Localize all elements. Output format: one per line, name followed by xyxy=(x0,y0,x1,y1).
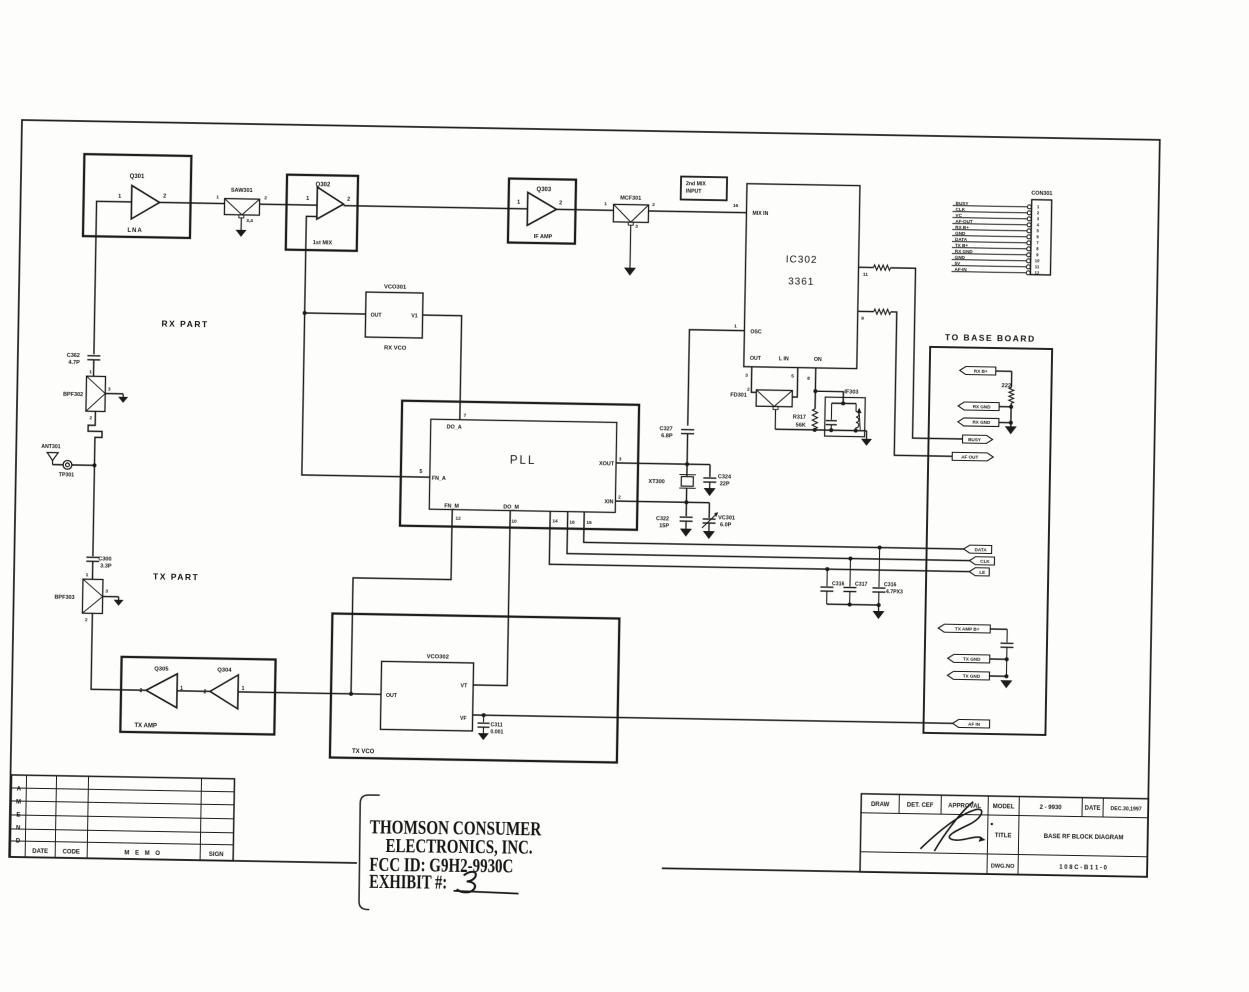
svg-text:DATA: DATA xyxy=(975,547,988,552)
signal tag BUSY xyxy=(962,435,992,444)
svg-text:OUT: OUT xyxy=(371,313,383,319)
wire resistor to ground xyxy=(1010,403,1012,426)
amplifier Q303 (IF amp) box xyxy=(508,179,576,244)
title block grid xyxy=(860,794,1149,878)
schematic sheet (rotated scan) xyxy=(8,119,1161,878)
junction node IF303 top xyxy=(841,401,845,405)
junction node L bottom xyxy=(854,429,858,433)
ground at C322 xyxy=(685,521,687,528)
svg-text:C300: C300 xyxy=(98,556,111,562)
svg-text:IF AMP: IF AMP xyxy=(534,234,553,240)
ground at SAW301 xyxy=(235,230,246,237)
signal tag TX AMP B+ xyxy=(938,624,990,633)
wire IC302 pin3 to FD301 xyxy=(751,367,756,393)
svg-text:6.8P: 6.8P xyxy=(661,433,673,439)
svg-text:1: 1 xyxy=(86,572,89,578)
svg-text:2: 2 xyxy=(163,193,166,199)
oscillator VCO301 box xyxy=(365,292,423,338)
wire CON301 pin 4 xyxy=(952,224,1027,225)
svg-text:MCF301: MCF301 xyxy=(620,195,641,201)
svg-text:3: 3 xyxy=(745,373,748,379)
resistor R317 xyxy=(812,409,818,429)
svg-text:VC: VC xyxy=(955,213,962,218)
amplifier Q301 (LNA) block box xyxy=(83,154,191,238)
wire LNA out to SAW301 xyxy=(160,202,225,203)
svg-text:C322: C322 xyxy=(656,516,669,522)
wire XIN to VC301 xyxy=(708,503,710,518)
svg-text:RX GND: RX GND xyxy=(955,249,974,254)
wire PLL FN_M to TX VCO node xyxy=(351,508,452,696)
pin circle CON301 pin 9 xyxy=(1027,253,1031,257)
svg-text:PLL: PLL xyxy=(510,455,537,467)
svg-text:2: 2 xyxy=(559,200,562,206)
svg-text:1: 1 xyxy=(517,200,520,206)
svg-text:VCO302: VCO302 xyxy=(427,654,449,660)
wire TX cap down xyxy=(1005,647,1008,676)
capacitor C311 xyxy=(483,715,485,722)
svg-text:TX AMP B+: TX AMP B+ xyxy=(955,626,980,631)
inductor inside IF303 xyxy=(855,404,857,412)
ground stem SAW301 xyxy=(239,215,244,218)
svg-text:DEC.30,1997: DEC.30,1997 xyxy=(1110,806,1141,813)
junction node bus bottom2 xyxy=(877,603,881,607)
svg-text:TX VCO: TX VCO xyxy=(352,749,375,755)
svg-text:3: 3 xyxy=(1037,216,1040,221)
crystal XT300 xyxy=(681,477,693,487)
svg-text:16: 16 xyxy=(569,520,575,526)
wire CON301 pin 3 xyxy=(952,218,1027,219)
svg-text:2: 2 xyxy=(618,494,621,500)
svg-text:CLK: CLK xyxy=(956,207,966,212)
svg-text:FD301: FD301 xyxy=(730,392,747,398)
wire BPF302 down with meander xyxy=(87,411,102,465)
wire Q302 out to Q303 xyxy=(344,206,528,209)
svg-text:2: 2 xyxy=(652,202,655,208)
svg-text:1: 1 xyxy=(242,686,245,692)
svg-text:RX PART: RX PART xyxy=(161,318,208,329)
svg-text:CON301: CON301 xyxy=(1031,191,1052,197)
junction node XOUT/OSC xyxy=(685,462,689,466)
svg-text:M: M xyxy=(16,800,21,806)
wire PLL pin16 CLK bus xyxy=(567,512,970,561)
svg-text:BPF302: BPF302 xyxy=(63,392,83,398)
svg-text:BUSY: BUSY xyxy=(956,201,969,206)
wire CON301 pin 2 xyxy=(953,212,1028,213)
svg-text:A: A xyxy=(17,787,22,793)
wire node to crystal xyxy=(686,464,688,476)
junction node R317 bottom xyxy=(813,428,817,432)
wire TX GND2 xyxy=(989,675,1006,677)
wire LO node down to PLL FN_A xyxy=(302,313,433,477)
label box 2nd MIX INPUT xyxy=(681,177,727,201)
filter SAW301 xyxy=(224,199,259,216)
svg-text:OUT: OUT xyxy=(750,356,762,362)
svg-text:SIGN: SIGN xyxy=(209,852,224,858)
svg-text:2: 2 xyxy=(89,415,92,421)
svg-text:VC301: VC301 xyxy=(718,515,735,521)
svg-text:DRAW: DRAW xyxy=(871,802,890,808)
svg-text:5: 5 xyxy=(419,469,422,475)
svg-text:AF OUT: AF OUT xyxy=(961,454,978,459)
svg-text:C311: C311 xyxy=(490,722,502,728)
svg-text:6.0P: 6.0P xyxy=(720,522,732,528)
wire IF303 internal top xyxy=(832,402,856,404)
wire IC302 pin9 with resistor xyxy=(858,310,874,312)
ground at BPF302 xyxy=(122,394,124,397)
wire TX GND1 xyxy=(990,658,1007,660)
svg-text:5: 5 xyxy=(1036,228,1039,233)
svg-text:7: 7 xyxy=(463,413,466,419)
svg-text:1: 1 xyxy=(89,369,92,375)
wire Q305 to Q304 xyxy=(177,690,210,693)
wire FD301 out bottom xyxy=(773,406,778,409)
op-amp Q302 triangle xyxy=(317,187,344,219)
svg-text:OUT: OUT xyxy=(386,693,398,699)
wire RX B+ vertical xyxy=(1010,371,1012,387)
svg-text:DATE: DATE xyxy=(1085,806,1101,812)
signal tag RX GND (2) xyxy=(958,418,999,427)
wire Q304 to VCO302 OUT xyxy=(238,692,381,694)
wire C300 to BPF303 xyxy=(91,561,93,579)
svg-text:IC302: IC302 xyxy=(786,254,818,266)
svg-text:2: 2 xyxy=(1037,210,1040,215)
ground at IF303 xyxy=(866,431,868,439)
svg-text:BUSY: BUSY xyxy=(968,437,981,442)
wire TX B+ to cap xyxy=(990,628,1007,630)
wire BPF302 pin3 to ground xyxy=(105,393,123,395)
svg-text:TX PART: TX PART xyxy=(153,571,199,582)
svg-text:SAW301: SAW301 xyxy=(231,188,253,194)
junction node LO xyxy=(303,311,307,315)
svg-text:15: 15 xyxy=(586,520,592,526)
test point TP301 xyxy=(63,460,72,469)
svg-text:2nd MIX: 2nd MIX xyxy=(686,181,707,187)
wire PLL XIN xyxy=(615,501,709,503)
filter FD301 xyxy=(756,390,792,407)
wire IC302 pin5 to FD301 xyxy=(792,368,798,398)
svg-text:0.001: 0.001 xyxy=(490,729,503,735)
svg-text:Q301: Q301 xyxy=(130,174,145,180)
wire LNA input xyxy=(94,201,132,355)
svg-text:AF-IN: AF-IN xyxy=(954,267,967,272)
svg-text:C327: C327 xyxy=(659,426,672,432)
svg-text:C316: C316 xyxy=(884,582,897,588)
exhibit sticker label xyxy=(356,793,662,915)
ground at C324 xyxy=(709,482,711,488)
capacitor C362 xyxy=(87,355,100,357)
svg-text:TX B+: TX B+ xyxy=(955,243,969,248)
wire CON301 pin 7 xyxy=(952,242,1027,243)
pin circle CON301 pin 5 xyxy=(1027,229,1031,233)
amplifier TX AMP box xyxy=(120,657,275,735)
TO BASE BOARD box xyxy=(923,347,1052,735)
wire XIN node to C322 xyxy=(685,502,687,516)
pin circle CON301 pin 4 xyxy=(1027,223,1031,227)
svg-text:2: 2 xyxy=(347,197,350,203)
svg-text:9: 9 xyxy=(1036,252,1039,257)
svg-text:56K: 56K xyxy=(796,423,806,429)
svg-text:DATE: DATE xyxy=(32,849,48,855)
wire PLL pin14 LE bus xyxy=(549,511,970,571)
svg-text:TX GND: TX GND xyxy=(963,656,981,661)
svg-text:DATA: DATA xyxy=(955,237,968,242)
svg-text:N: N xyxy=(16,826,20,832)
pin circle CON301 pin 6 xyxy=(1027,235,1031,239)
svg-text:1: 1 xyxy=(1037,204,1040,209)
op-amp Q303 triangle xyxy=(527,192,557,226)
svg-text:TX GND: TX GND xyxy=(963,673,981,678)
svg-text:BPF303: BPF303 xyxy=(54,595,74,601)
ground at RX net xyxy=(1005,426,1017,434)
amendment table grid xyxy=(10,775,234,861)
junction node RX GND1 xyxy=(1009,405,1013,409)
pin circle CON301 pin 7 xyxy=(1027,241,1031,245)
wire CON301 pin 6 xyxy=(952,236,1027,237)
exhibit underline xyxy=(454,891,519,894)
filter BPF302 box xyxy=(86,376,106,411)
signal tag AF OUT xyxy=(952,452,993,461)
svg-text:1: 1 xyxy=(604,201,607,207)
wire Q303 out to MCF301 xyxy=(557,208,614,211)
junction node XIN xyxy=(684,500,688,504)
svg-text:16: 16 xyxy=(733,203,739,209)
svg-text:CLK: CLK xyxy=(980,559,990,564)
svg-text:TITLE: TITLE xyxy=(995,833,1012,839)
svg-text:TP301: TP301 xyxy=(59,472,75,478)
wire BPF303 pin3 to ground xyxy=(103,595,119,597)
capacitor C300 xyxy=(86,556,99,558)
svg-text:4.7P: 4.7P xyxy=(68,360,80,366)
junction node C316a xyxy=(825,567,829,571)
svg-text:10: 10 xyxy=(511,519,517,525)
filter MCF301 xyxy=(613,204,648,222)
svg-text:9: 9 xyxy=(861,316,864,322)
trimmer capacitor VC301 xyxy=(703,518,716,520)
signal tag DATA xyxy=(964,545,992,553)
svg-text:10: 10 xyxy=(1035,258,1040,263)
sticker left bracket outline xyxy=(359,795,380,910)
pin circle CON301 pin 8 xyxy=(1027,247,1031,251)
svg-text:OSC: OSC xyxy=(750,329,762,335)
wire CON301 pin 8 xyxy=(952,248,1027,249)
svg-text:D: D xyxy=(16,839,21,845)
wire CON301 pin 12 xyxy=(951,272,1026,273)
svg-text:C362: C362 xyxy=(67,353,80,359)
svg-text:RX B+: RX B+ xyxy=(974,368,988,373)
svg-text:1: 1 xyxy=(118,194,121,200)
PLL outer box xyxy=(400,401,639,530)
svg-text:DWG.NO: DWG.NO xyxy=(991,864,1015,870)
junction node pin8 xyxy=(813,389,817,393)
svg-text:3: 3 xyxy=(619,456,622,462)
capacitor inside IF303 xyxy=(830,403,832,419)
svg-text:2: 2 xyxy=(747,387,750,393)
junction node RX GND2 xyxy=(1009,421,1013,425)
wire C327 to XOUT node xyxy=(686,434,689,464)
IC U302 (IC302 3361) box xyxy=(744,184,860,369)
svg-text:VT: VT xyxy=(460,683,468,689)
svg-text:TO BASE BOARD: TO BASE BOARD xyxy=(945,332,1036,344)
junction node C316b xyxy=(878,546,882,550)
svg-text:222: 222 xyxy=(1001,383,1011,389)
ground at TX net xyxy=(1000,680,1012,688)
ground at C316 xyxy=(878,605,880,611)
svg-text:LNA: LNA xyxy=(127,228,142,234)
svg-text:3: 3 xyxy=(105,589,108,595)
wire VCO302 VF to AF IN xyxy=(473,715,953,723)
transformer IF303 box xyxy=(825,397,866,437)
svg-text:3361: 3361 xyxy=(788,276,814,287)
capacitor C317 xyxy=(849,559,851,587)
svg-text:5V: 5V xyxy=(955,261,962,266)
svg-text:C317: C317 xyxy=(855,582,868,588)
wire VCO301 V1 to PLL DO_A xyxy=(421,315,462,420)
svg-text:R317: R317 xyxy=(793,415,806,421)
signature scrawl xyxy=(920,801,982,852)
svg-text:MIX IN: MIX IN xyxy=(752,211,768,217)
capacitor C316 (first) xyxy=(826,569,828,586)
capacitor C316 (second) xyxy=(878,548,881,587)
signal tag AF IN xyxy=(953,719,990,728)
junction node TX out xyxy=(349,692,353,696)
svg-text:11: 11 xyxy=(1035,264,1040,269)
ground stem MCF301 xyxy=(628,222,633,225)
svg-text:3: 3 xyxy=(108,387,111,393)
wire node down to C300 xyxy=(93,465,95,556)
svg-text:ON: ON xyxy=(814,357,822,363)
wire capacitors bottom bus xyxy=(827,603,879,606)
wire VCO301 OUT to LO node xyxy=(305,313,366,314)
junction node antenna/RX/TX xyxy=(92,463,96,467)
wire MCF301 to IC302 MIX IN xyxy=(648,211,746,213)
ground at BPF303 xyxy=(118,597,120,600)
wire CON301 pin 11 xyxy=(952,266,1027,267)
ground at C311 xyxy=(478,733,489,740)
capacitor C322 xyxy=(680,516,693,518)
svg-text:Q304: Q304 xyxy=(217,668,232,674)
svg-text:AF IN: AF IN xyxy=(968,721,981,726)
svg-text:12: 12 xyxy=(455,516,461,522)
svg-text:LE: LE xyxy=(979,570,985,575)
junction node C311 xyxy=(482,713,486,717)
svg-text:AF-OUT: AF-OUT xyxy=(955,219,973,224)
svg-text:FN_M: FN_M xyxy=(444,503,459,509)
signal tag LE xyxy=(969,568,989,576)
svg-text:MODEL: MODEL xyxy=(993,804,1015,810)
filter BPF303 box xyxy=(82,579,103,613)
svg-text:C316: C316 xyxy=(832,581,845,587)
wire BPF303 to TX amp input xyxy=(91,613,147,690)
svg-text:C324: C324 xyxy=(718,474,732,480)
wire PLL pin15 DATA bus xyxy=(584,512,964,549)
capacitor at TX B+ xyxy=(1001,642,1014,644)
junction node C317 xyxy=(848,557,852,561)
wire XOUT to C324 xyxy=(709,465,711,477)
pin circle CON301 pin 2 xyxy=(1027,211,1031,215)
op-amp Q304 triangle xyxy=(210,674,239,708)
svg-text:Q303: Q303 xyxy=(536,187,551,193)
svg-text:XIN: XIN xyxy=(604,499,613,505)
svg-text:FN_A: FN_A xyxy=(432,476,446,482)
svg-text:4.7PX3: 4.7PX3 xyxy=(886,589,903,595)
wire discriminator bottom bus xyxy=(775,429,866,431)
junction node TX GND2 xyxy=(1004,674,1008,678)
svg-text:2: 2 xyxy=(85,617,88,623)
svg-text:XT300: XT300 xyxy=(648,479,664,485)
wire CON301 pin 9 xyxy=(952,254,1027,255)
TX VCO outer box xyxy=(330,614,619,763)
wire IC302 pin11 with resistor xyxy=(859,266,874,268)
svg-text:2 - 9930: 2 - 9930 xyxy=(1040,805,1063,811)
op-amp Q301 triangle xyxy=(131,185,160,219)
ground at VC301 xyxy=(708,523,710,531)
svg-text:DO_M: DO_M xyxy=(503,504,519,510)
op-amp Q305 triangle xyxy=(146,673,178,708)
ground at MCF301 xyxy=(624,268,636,276)
svg-text:7: 7 xyxy=(1036,240,1039,245)
svg-text:CODE: CODE xyxy=(62,849,79,855)
wire crystal to XIN node xyxy=(685,488,687,502)
wire CON301 pin 5 xyxy=(952,230,1027,231)
signal tag CLK xyxy=(969,557,994,565)
wire PLL DO_M to VCO302 VT xyxy=(473,510,510,686)
svg-text:1: 1 xyxy=(216,194,219,200)
svg-text:IF303: IF303 xyxy=(844,389,858,395)
wire SAW301 to Q302 xyxy=(260,204,317,205)
svg-text:BASE RF BLOCK DIAGRAM: BASE RF BLOCK DIAGRAM xyxy=(1044,834,1124,841)
svg-text:RX GND: RX GND xyxy=(972,420,991,425)
wire IC302 pin8 down xyxy=(814,368,817,409)
pin circle CON301 pin 12 xyxy=(1026,271,1030,275)
svg-text:V1: V1 xyxy=(411,313,418,319)
junction node TX GND1 xyxy=(1005,657,1009,661)
wire RX GND1 xyxy=(999,406,1011,408)
svg-text:8: 8 xyxy=(807,376,810,382)
signal tag TX GND (2) xyxy=(947,671,989,680)
svg-text:M E M O: M E M O xyxy=(124,850,162,857)
svg-text:EXHIBIT #:: EXHIBIT #: xyxy=(369,872,447,894)
connector CON301 box xyxy=(1030,200,1051,275)
svg-text:1st MIX: 1st MIX xyxy=(313,240,333,246)
wire LO node up to Q302 mixer xyxy=(305,216,317,313)
svg-text:15P: 15P xyxy=(659,523,669,529)
antenna ANT301 xyxy=(47,453,58,461)
svg-text:ANT301: ANT301 xyxy=(41,444,61,450)
svg-text:2: 2 xyxy=(204,689,207,695)
svg-text:6: 6 xyxy=(1036,234,1039,239)
wire pin8 node to IF303 xyxy=(815,391,843,403)
svg-text:Q305: Q305 xyxy=(154,666,169,672)
svg-text:3,4: 3,4 xyxy=(246,218,253,224)
svg-text:3: 3 xyxy=(635,224,638,230)
svg-text:Q302: Q302 xyxy=(315,182,330,188)
wire RX B+ to resistor xyxy=(996,370,1012,372)
svg-text:4: 4 xyxy=(1037,222,1040,227)
handwritten exhibit number 3 xyxy=(457,872,476,893)
pin circle CON301 pin 1 xyxy=(1027,205,1031,209)
pin circle CON301 pin 11 xyxy=(1026,265,1030,269)
capacitor C324 xyxy=(703,477,716,479)
wire CON301 pin 1 xyxy=(953,206,1028,207)
signal tag TX GND (1) xyxy=(948,654,990,663)
svg-text:5: 5 xyxy=(791,373,794,379)
svg-text:GND: GND xyxy=(955,231,966,236)
svg-text:VF: VF xyxy=(460,716,467,722)
svg-text:12: 12 xyxy=(1035,270,1040,275)
svg-text:VCO301: VCO301 xyxy=(384,284,407,290)
svg-text:8: 8 xyxy=(1036,246,1039,251)
svg-text:TX AMP: TX AMP xyxy=(134,723,157,729)
